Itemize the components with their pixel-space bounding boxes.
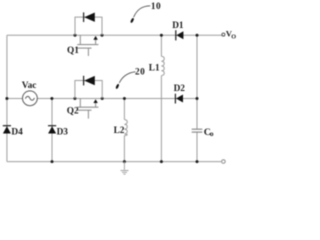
svg-text:D4: D4	[11, 128, 23, 138]
junction Q2 source on mid rail	[101, 97, 104, 100]
svg-text:L2: L2	[114, 126, 125, 136]
leader arrow 10	[130, 6, 150, 23]
junction D2 right branch on mid rail	[196, 97, 199, 100]
svg-text:Q1: Q1	[67, 46, 79, 56]
wire mid rail left of Vac	[7, 98, 23, 100]
svg-text:Q2: Q2	[67, 107, 79, 117]
junction D1 cathode-right branch on top rail	[196, 34, 199, 37]
svg-text:L1: L1	[149, 63, 160, 73]
wire bottom rail	[7, 161, 221, 163]
wire right branch lower (Co to bottom)	[196, 132, 198, 161]
junction Q1 source on top rail	[101, 34, 104, 37]
junction L2 bottom / ground on bottom rail	[123, 160, 126, 163]
junction L1 top on top rail	[160, 34, 163, 37]
junction Q1 drain on top rail	[74, 34, 77, 37]
diode D2	[175, 94, 183, 104]
transistor Q1	[77, 35, 98, 56]
transistor Q2	[77, 99, 98, 119]
leader arrow 20	[115, 72, 135, 89]
AC source Vac	[23, 91, 38, 106]
body diode of Q1 (loop)	[75, 17, 102, 35]
junction D3 branch on mid rail	[50, 97, 53, 100]
inductor L1	[161, 56, 164, 75]
wire L1 branch lower	[160, 76, 162, 162]
svg-text:O: O	[231, 33, 236, 40]
junction Co branch bottom on bottom rail	[196, 160, 199, 163]
diode D1	[176, 30, 184, 40]
body diode of Q2 (loop)	[75, 81, 102, 99]
svg-text:o: o	[210, 129, 214, 138]
junction left vertical with Vac wire	[5, 97, 8, 100]
diode D3	[48, 126, 56, 134]
inductor L2	[124, 120, 127, 136]
svg-text:D1: D1	[172, 21, 184, 31]
capacitor Co plates	[192, 129, 203, 132]
terminal bottom-right circle	[222, 160, 226, 164]
diode D4	[3, 126, 11, 134]
junction L2 top on mid rail	[123, 97, 126, 100]
svg-text:D2: D2	[174, 84, 186, 94]
wire D3 branch	[51, 99, 53, 162]
junction D3 bottom on bottom rail	[51, 160, 54, 163]
wire mid rail Vac to D2	[37, 98, 197, 100]
wire top rail	[7, 34, 222, 36]
svg-text:Vac: Vac	[22, 81, 37, 91]
wire right branch upper (D1 to Co)	[196, 35, 198, 129]
junction Q2 drain on mid rail	[73, 97, 76, 100]
wire L2 branch lower	[123, 136, 125, 162]
wire L1 branch upper	[160, 35, 162, 56]
svg-text:10: 10	[151, 2, 161, 12]
wire left vertical (D4 branch)	[6, 35, 8, 161]
junction L1 branch bottom on bottom rail	[160, 160, 163, 163]
wire L2 branch upper	[123, 99, 125, 120]
svg-text:D3: D3	[57, 128, 69, 138]
terminal Vo circle	[222, 33, 225, 36]
svg-text:20: 20	[135, 68, 145, 78]
ground	[121, 162, 129, 175]
